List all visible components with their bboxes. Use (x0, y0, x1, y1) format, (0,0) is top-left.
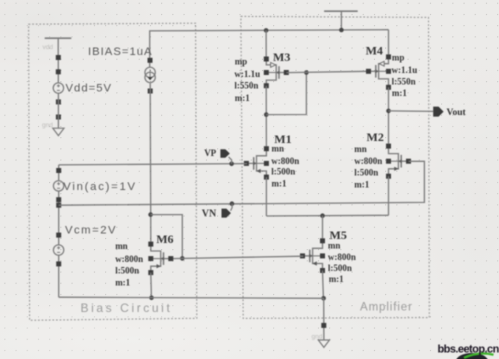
svg-text:Vcm=2V: Vcm=2V (65, 224, 117, 236)
node: VN junction (230, 201, 235, 206)
wire M5 source to ground rail corner (322, 271, 325, 299)
label M2 parameters mn w:800n l:500n m:1 (354, 144, 382, 190)
svg-text:w:1.1u: w:1.1u (234, 69, 260, 79)
svg-text:mp: mp (392, 53, 405, 63)
transistor M1 (nmos) (244, 146, 269, 179)
ground (bias) (53, 128, 64, 135)
watermark logo ellipse (456, 353, 488, 359)
svg-text:M6: M6 (156, 232, 173, 246)
svg-text:mn: mn (272, 144, 285, 154)
wire IBIAS to M6 drain (149, 83, 152, 241)
svg-text:M3: M3 (273, 50, 290, 64)
svg-text:l:500n: l:500n (271, 167, 295, 177)
wire tail node (266, 214, 388, 217)
svg-text:VN: VN (202, 209, 217, 220)
wire Vdd source to ground (57, 93, 59, 128)
svg-text:m:1: m:1 (392, 88, 407, 98)
voltage source Vdd=5V (53, 55, 63, 120)
wire M3 diode connection (drain to gate) (266, 73, 306, 115)
wire to amplifier ground (323, 298, 325, 340)
svg-text:M4: M4 (366, 43, 383, 57)
svg-text:mn: mn (354, 144, 367, 154)
wire Vout (389, 110, 434, 113)
svg-text:m:1: m:1 (115, 278, 130, 288)
wire M6 source to ground rail (150, 273, 153, 298)
svg-text:l:500n: l:500n (115, 266, 139, 276)
node: M6 drain tap (148, 212, 153, 217)
wire tail to M5 drain (322, 216, 324, 239)
svg-text:m:1: m:1 (354, 180, 369, 190)
svg-text:Bias Circuit: Bias Circuit (81, 301, 173, 315)
svg-text:l:500n: l:500n (328, 263, 352, 273)
node: vdd wire / M3 source (264, 28, 269, 33)
svg-text:m:1: m:1 (272, 178, 287, 188)
label M5 parameters mn w:800n l:500n m:1 (328, 241, 356, 284)
port VP (220, 149, 231, 164)
wire ground rail (59, 297, 324, 298)
svg-text:m:1: m:1 (329, 274, 344, 284)
node: current mirror gate junction (304, 70, 309, 75)
wire current mirror gate bus (M3 gate to M4 gate) (286, 71, 367, 72)
watermark logo green arc (464, 354, 494, 358)
node: VP junction (229, 162, 234, 167)
svg-text:w:800n: w:800n (115, 254, 143, 264)
label M4 parameters mp w:1.1u l:550n m:1 (392, 53, 418, 98)
wire VN net (Vin-/Vcm+ to M2 gate) (59, 161, 425, 205)
svg-text:Vin(ac)=1V: Vin(ac)=1V (63, 181, 137, 193)
node: tail / M5 drain junction (320, 213, 325, 218)
svg-text:l:550n: l:550n (392, 77, 416, 87)
wire vdd to M4 source (388, 30, 390, 55)
label M1 parameters mn w:800n l:500n m:1 (271, 144, 299, 189)
voltage source Vcm=2V (53, 233, 63, 298)
svg-text:M2: M2 (367, 130, 384, 144)
svg-text:w:800n: w:800n (328, 252, 356, 262)
wire M3 drain to M1 drain (265, 86, 267, 147)
wire M2 source to tail (388, 176, 390, 215)
svg-text:mp: mp (235, 57, 248, 67)
svg-text:bbs.eetop.cn: bbs.eetop.cn (438, 344, 499, 356)
vdd rail (bias) (45, 38, 72, 55)
svg-text:l:500n: l:500n (354, 167, 378, 177)
node: ground rail corner (321, 296, 326, 301)
transistor M5 (nmos) (300, 238, 325, 273)
wire M6 diode connection (drain to gate) (151, 215, 183, 259)
wire M1 source to tail (265, 177, 267, 216)
wire vdd to M3 source (265, 30, 267, 56)
svg-text:Vout: Vout (447, 108, 467, 118)
port VN (222, 204, 233, 218)
svg-text:mn: mn (115, 241, 128, 251)
node: Vout junction (386, 109, 391, 114)
wire M6 gate junction to M5 gate (171, 256, 303, 258)
wire VP net (Vin+ to M1 gate) (59, 164, 247, 165)
bias circuit dashed box (29, 23, 197, 320)
wire vdd net: IBIAS top to amplifier rail (150, 30, 389, 67)
transistor M4 (pmos) (366, 54, 391, 89)
port Vout (433, 107, 443, 117)
current source IBIAS (145, 58, 155, 94)
node: M6 gate / M5 gate junction (180, 256, 185, 261)
label M3 parameters mp w:1.1u l:550n m:1 (234, 57, 260, 103)
transistor M2 (nmos) (386, 144, 411, 179)
label M6 parameters mn w:800n l:500n m:1 (115, 241, 143, 288)
wire vdd rail to Vdd source (57, 55, 59, 83)
svg-text:w:800n: w:800n (271, 156, 299, 166)
amplifier dashed box (241, 16, 429, 318)
node: amplifier rail tap (339, 28, 344, 33)
transistor M6 (nmos) (148, 242, 173, 276)
svg-text:m:1: m:1 (235, 93, 250, 103)
wire M4 drain to M2 drain (388, 87, 390, 143)
svg-text:vdd: vdd (43, 44, 54, 51)
svg-text:gnd: gnd (42, 122, 53, 129)
node: M3 drain / M1 drain junction (264, 112, 269, 117)
ground (amplifier) (318, 323, 329, 348)
voltage source Vin(ac)=1V (53, 165, 63, 245)
svg-text:w:1.1u: w:1.1u (392, 65, 418, 75)
node: ground rail / M6 source (149, 296, 154, 301)
svg-text:Vdd=5V: Vdd=5V (66, 83, 113, 95)
transistor M3 (pmos) (264, 57, 289, 89)
vdd rail (amplifier) (324, 11, 358, 30)
svg-text:IBIAS=1uA: IBIAS=1uA (88, 46, 153, 58)
svg-text:Amplifier: Amplifier (360, 302, 413, 314)
svg-text:VP: VP (204, 148, 216, 158)
svg-text:l:550n: l:550n (234, 81, 258, 91)
svg-text:w:800n: w:800n (354, 156, 382, 166)
svg-text:mn: mn (328, 241, 341, 251)
